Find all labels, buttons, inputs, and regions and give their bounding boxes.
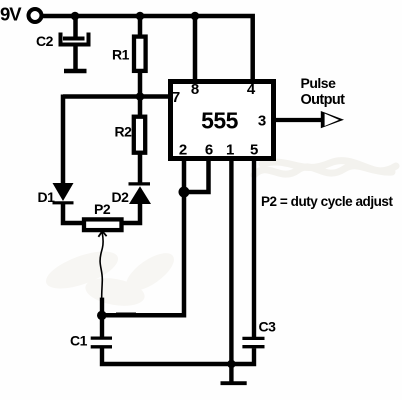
svg-text:4: 4	[247, 81, 256, 98]
wire: R2 top lead	[138, 97, 143, 117]
capacitor C1 top plate	[91, 336, 112, 339]
svg-text:5: 5	[250, 141, 258, 158]
diode D2 cathode bar	[129, 182, 151, 185]
wire: pin 5 down to C3	[252, 159, 256, 338]
resistor R1 body	[134, 37, 146, 71]
wire: R1 top lead	[138, 16, 143, 37]
svg-text:1: 1	[226, 141, 234, 158]
svg-text:C3: C3	[259, 319, 277, 335]
wire: stray hand mark	[116, 312, 136, 314]
svg-text:R1: R1	[112, 47, 130, 63]
junction node pin2/pin6	[179, 187, 190, 198]
terminal 9V circle	[29, 9, 42, 22]
junction node on rail at pin8	[191, 12, 200, 21]
wire: 9V top rail to pin 4	[42, 16, 253, 82]
wire: C1 top lead	[100, 313, 104, 338]
wire: pin 6 down and left to pin2 line	[182, 159, 209, 192]
wire: bottom rail from C1 to C3	[102, 347, 254, 364]
wire: pin 3 output	[274, 118, 322, 122]
svg-text:Output: Output	[301, 92, 346, 108]
junction node on rail at R1	[136, 12, 145, 21]
svg-text:P2: P2	[94, 201, 111, 217]
capacitor C3 top plate	[242, 337, 264, 340]
svg-text:R2: R2	[115, 124, 133, 140]
svg-text:8: 8	[191, 81, 199, 98]
junction node on rail at C2	[71, 12, 80, 21]
junction node wiper/C1/pin2	[97, 311, 107, 321]
wire: pin 1 down to ground	[229, 159, 233, 366]
junction node R1/R2/pin7	[136, 92, 145, 101]
output arrow	[321, 111, 344, 128]
ground bar under C2	[64, 69, 87, 74]
svg-text:D2: D2	[112, 189, 130, 205]
P2 wiper arrow	[98, 231, 106, 237]
wire: D1 to P2 left terminal	[63, 203, 85, 224]
wire: pin 7 horizontal	[63, 94, 172, 99]
svg-text:Pulse: Pulse	[301, 75, 337, 91]
ground stem	[229, 362, 233, 382]
wire: C2 lower lead	[73, 45, 78, 70]
op 555 chip body U1	[171, 82, 274, 159]
diode D1 triangle	[53, 183, 74, 201]
potentiometer P2 body	[84, 219, 122, 230]
svg-text:C2: C2	[36, 33, 54, 49]
wire: R2 bottom lead to D2	[138, 153, 143, 185]
ground bar	[221, 381, 247, 385]
wire: pin 2 down and left to wiper junction	[100, 159, 184, 315]
wire: wiper stub to junction	[100, 298, 104, 316]
svg-text:555: 555	[201, 108, 239, 134]
capacitor C3 bottom plate	[242, 345, 264, 348]
wire: pin 8 up to rail	[193, 14, 198, 82]
resistor R2 body	[134, 117, 145, 153]
capacitor C1 bottom plate	[91, 345, 112, 348]
wire: D1 vertical lead from pin7 wire	[61, 95, 66, 185]
svg-text:7: 7	[172, 89, 180, 106]
svg-text:D1: D1	[38, 189, 56, 205]
watermark	[42, 244, 180, 310]
svg-text:6: 6	[205, 141, 213, 158]
svg-text:P2 = duty cycle adjust: P2 = duty cycle adjust	[261, 194, 393, 209]
wire: D2 to P2 right terminal	[122, 203, 140, 223]
wire: C2 branch lead from rail	[73, 16, 78, 37]
capacitor C2 top plate	[63, 37, 85, 41]
wire: R1 bottom lead	[138, 71, 143, 99]
svg-text:C1: C1	[70, 333, 88, 349]
diode D1 cathode bar	[53, 201, 74, 204]
P2 wiper squiggle wire	[100, 233, 103, 300]
capacitor C2 cup (polarized plate)	[61, 33, 89, 45]
diode D2 triangle	[129, 186, 151, 204]
junction node ground	[227, 360, 235, 368]
svg-text:2: 2	[179, 141, 187, 158]
svg-text:9V: 9V	[0, 3, 22, 24]
svg-text:3: 3	[258, 112, 266, 129]
